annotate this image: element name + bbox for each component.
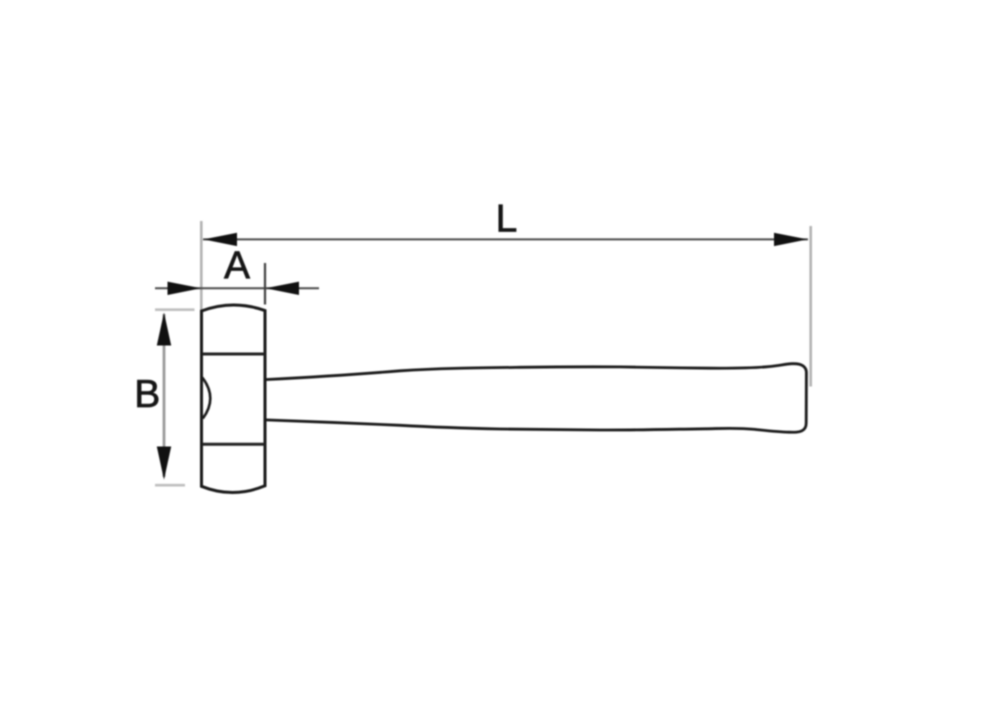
- hammer head eye arc: [202, 378, 210, 419]
- svg-text:A: A: [224, 244, 250, 287]
- arrowhead L left: [204, 233, 238, 246]
- svg-text:L: L: [496, 198, 518, 241]
- arrowhead A right (outside, pointing left): [266, 282, 300, 295]
- arrowhead L right: [774, 233, 808, 246]
- hammer head top face band line: [203, 353, 265, 356]
- arrowhead B bottom (pointing down): [157, 447, 171, 480]
- extension line bottom (for B), gray horizontal: [155, 484, 185, 487]
- dimension line L: [203, 238, 808, 240]
- dimension line A: [155, 287, 319, 289]
- dimension line B, gray vertical: [163, 314, 166, 477]
- extension line top (for B), gray horizontal: [155, 308, 195, 311]
- hammer head bottom face band line: [203, 443, 265, 446]
- arrowhead B top (pointing up): [157, 313, 171, 346]
- hammer handle outline: [265, 364, 806, 433]
- svg-text:B: B: [134, 373, 160, 416]
- extension line left (for L and A), gray vertical at head left: [200, 221, 203, 310]
- extension line right (for L), gray vertical at handle end: [809, 226, 812, 387]
- extension line right (for A), dark vertical above head right edge: [264, 263, 266, 305]
- hammer head outline: [202, 305, 266, 493]
- arrowhead A left (outside, pointing right): [168, 282, 202, 295]
